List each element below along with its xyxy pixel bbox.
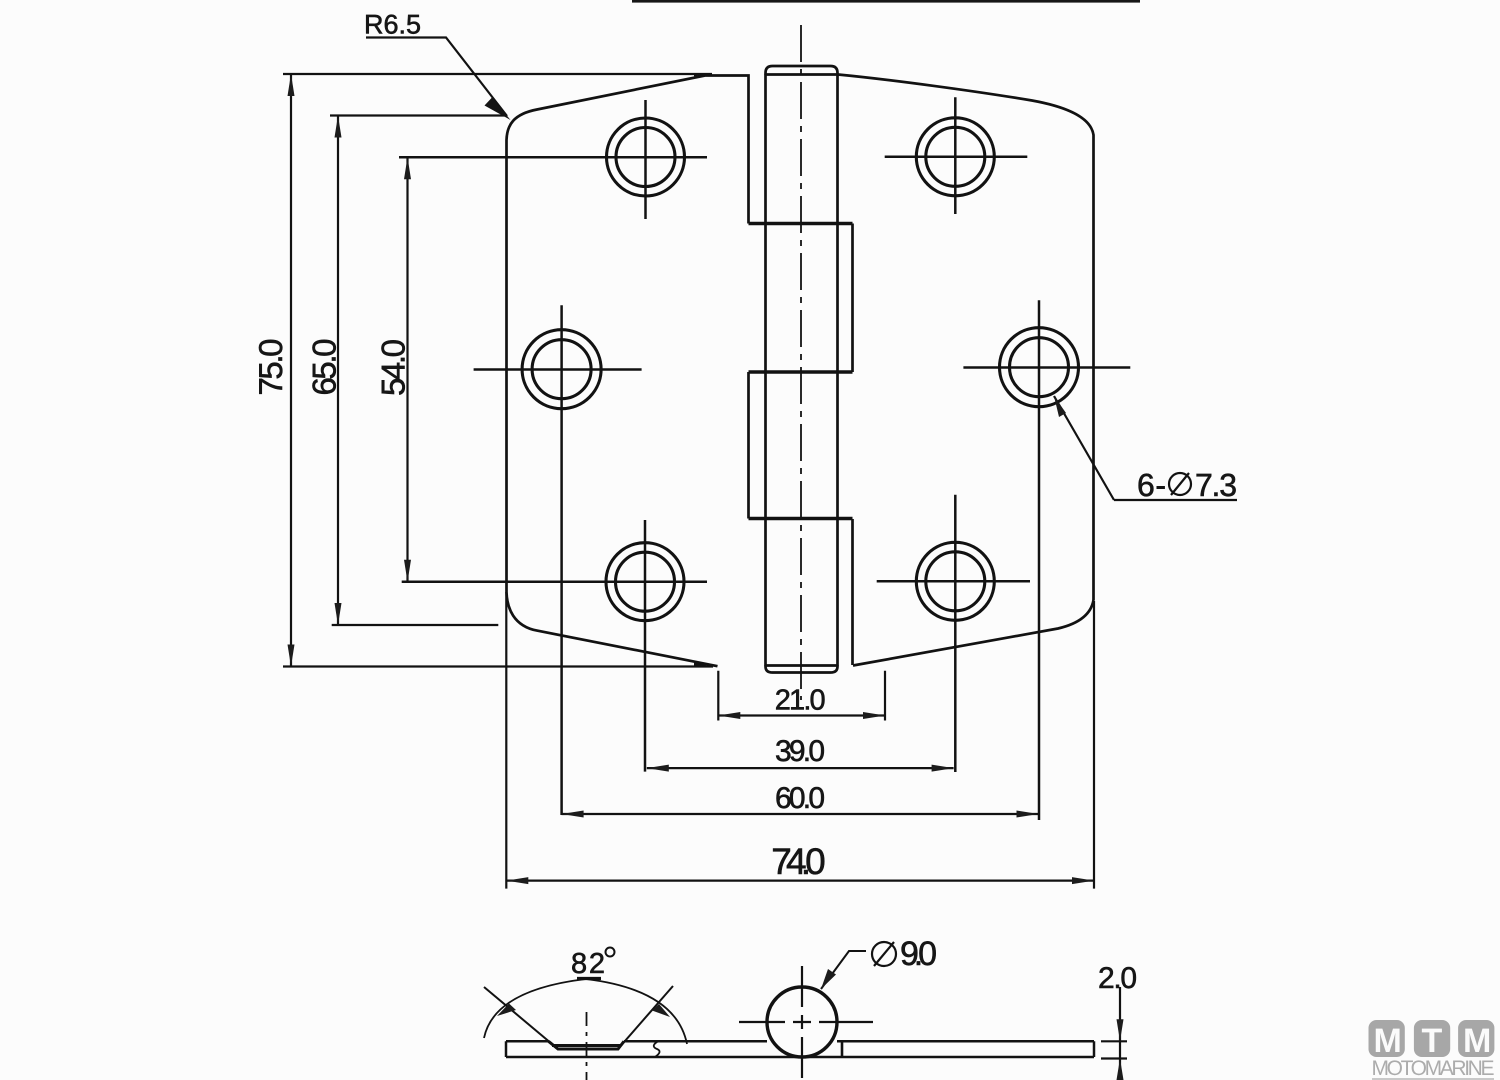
- barrel bottom cap: [766, 665, 838, 673]
- barrel centerline: [800, 25, 802, 700]
- watermark MTM logo: [1369, 1020, 1495, 1060]
- side view countersink: [549, 1041, 625, 1049]
- dia symbol of 6-d7.3: [1169, 473, 1191, 495]
- angle arc 82: [484, 979, 687, 1044]
- scan artifact top line: [632, 0, 1140, 3]
- barrel left edge: [764, 75, 767, 666]
- dimension 65.0: [330, 116, 506, 626]
- left leaf bottom edge: [507, 592, 718, 666]
- svg-text:65.0: 65.0: [306, 339, 343, 396]
- hole mid-right: [1000, 328, 1079, 407]
- hole top-right: [916, 118, 994, 196]
- hole bottom-left: [606, 543, 684, 621]
- left leaf outline: [507, 76, 749, 224]
- dimension 21.0: [718, 671, 885, 721]
- svg-text:T: T: [1422, 1022, 1443, 1060]
- left leaf lower slot edge: [747, 372, 750, 519]
- dimension 2.0: [1101, 987, 1127, 1080]
- barrel right edge: [836, 75, 839, 666]
- barrel circle centerlines: [739, 1021, 873, 1023]
- leader d9.0: [821, 951, 866, 989]
- svg-text:74.0: 74.0: [771, 841, 825, 882]
- svg-text:7.3: 7.3: [1195, 467, 1237, 503]
- side view barrel circle: [767, 987, 837, 1057]
- barrel joint line 2: [749, 370, 853, 374]
- svg-text:21.0: 21.0: [775, 685, 826, 717]
- barrel joint line 1: [749, 222, 853, 226]
- svg-text:M: M: [1374, 1022, 1402, 1060]
- countersink cone left line: [484, 987, 558, 1049]
- dimension 75.0: [283, 74, 713, 667]
- svg-text:39.0: 39.0: [775, 735, 825, 768]
- dimension 60.0: [562, 813, 1039, 815]
- left leaf left edge: [505, 140, 508, 592]
- hole mid-left: [522, 330, 601, 409]
- svg-text:82: 82: [571, 948, 605, 980]
- countersink centerline: [586, 1012, 588, 1080]
- svg-text:2.0: 2.0: [1098, 962, 1137, 995]
- leader 6-d7.3: [1054, 396, 1114, 500]
- dia symbol of d9.0: [872, 942, 896, 966]
- svg-text:MOTOMARINE: MOTOMARINE: [1372, 1057, 1495, 1080]
- svg-text:75.0: 75.0: [252, 339, 289, 396]
- barrel top cap: [766, 66, 838, 75]
- dimension 74.0: [506, 592, 1094, 889]
- svg-text:M: M: [1463, 1022, 1491, 1060]
- countersink cone right line: [618, 986, 673, 1049]
- leaf edge wedge top: [694, 73, 713, 76]
- degree symbol of 82: [606, 948, 615, 957]
- svg-text:54.0: 54.0: [375, 339, 412, 396]
- dimension 39.0: [647, 767, 954, 769]
- svg-text:9.0: 9.0: [900, 935, 937, 973]
- svg-text:60.0: 60.0: [775, 782, 825, 815]
- side view joint tick: [841, 1042, 844, 1056]
- leaf edge wedge bottom: [694, 662, 714, 668]
- leader R6.5: [366, 38, 507, 117]
- right leaf outline bottom: [853, 600, 1094, 666]
- hole top-left: [607, 118, 685, 196]
- barrel joint line 3: [749, 517, 853, 521]
- side view plate: [506, 1041, 1094, 1057]
- svg-text:6-: 6-: [1137, 467, 1166, 503]
- right leaf outline top: [838, 75, 1094, 601]
- right leaf lower slot edge: [851, 519, 854, 665]
- right leaf upper slot edge: [851, 224, 854, 373]
- side view break squiggle: [654, 1041, 660, 1057]
- arc top tick: [577, 977, 601, 980]
- dimension 54.0: [406, 157, 408, 581]
- svg-text:R6.5: R6.5: [364, 10, 421, 40]
- hole bottom-right: [916, 542, 994, 620]
- watermark partial bottom row: [1372, 1078, 1494, 1080]
